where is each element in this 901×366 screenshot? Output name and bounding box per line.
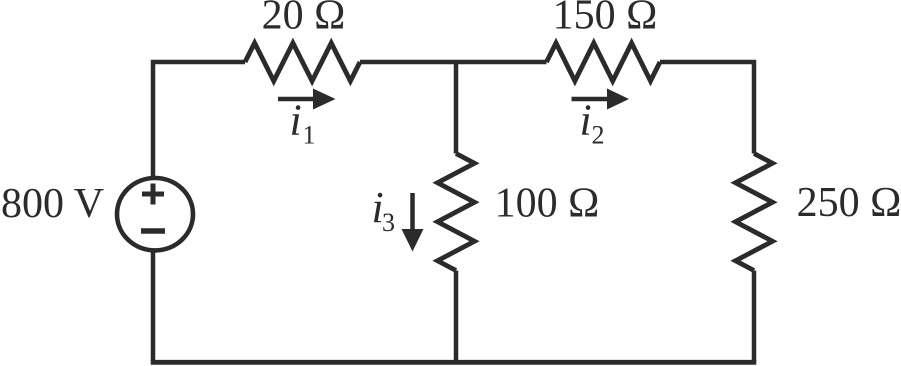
label 100 Ω <box>495 181 600 227</box>
resistor 150 Ω <box>547 43 661 81</box>
label 250 Ω <box>797 180 901 226</box>
svg-text:800 V: 800 V <box>1 181 104 227</box>
voltage source circle <box>117 178 193 250</box>
label i3 <box>372 183 396 237</box>
wire middle branch lower stub <box>454 271 459 363</box>
label 800 V <box>1 181 104 227</box>
voltage source minus terminal <box>141 228 165 234</box>
svg-text:2: 2 <box>592 121 605 150</box>
label i1 <box>290 96 316 150</box>
label i2 <box>580 96 605 150</box>
wire top-left segment with corner to voltage source <box>153 62 245 178</box>
wire top-right segment with corner <box>660 62 754 154</box>
wire bottom rail with left and right corners <box>151 251 757 362</box>
svg-text:20 Ω: 20 Ω <box>262 0 346 39</box>
resistor 250 Ω <box>736 154 773 271</box>
label 20 Ω <box>262 0 346 39</box>
svg-text:150 Ω: 150 Ω <box>553 0 658 39</box>
resistor 20 Ω <box>245 43 360 81</box>
resistor 100 Ω <box>438 154 475 271</box>
label 150 Ω <box>553 0 658 39</box>
wire middle branch upper stub <box>454 62 459 154</box>
svg-text:100 Ω: 100 Ω <box>495 181 600 227</box>
svg-text:250 Ω: 250 Ω <box>797 180 901 226</box>
svg-text:i: i <box>580 96 592 145</box>
wire top-middle segment between 20 Ω and 150 Ω <box>360 60 547 65</box>
svg-text:1: 1 <box>303 121 316 150</box>
svg-text:i: i <box>290 96 302 145</box>
voltage source plus terminal <box>142 184 164 205</box>
svg-text:3: 3 <box>382 208 395 237</box>
current arrow i3 <box>402 193 424 252</box>
current arrow i2 <box>572 89 630 110</box>
current arrow i1 <box>278 89 336 110</box>
